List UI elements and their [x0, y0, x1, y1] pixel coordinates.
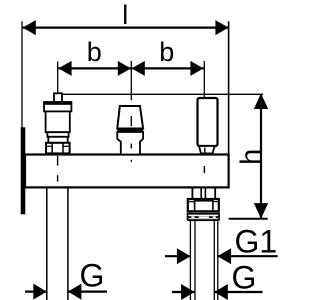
dimension G right left tail [172, 291, 195, 293]
union stem inner line right [204, 189, 206, 200]
extension line valve1 centerline up [57, 62, 59, 94]
union collar knurl band [188, 216, 219, 218]
valve V1 centerline dash in manifold [57, 156, 59, 166]
dimension l line [23, 27, 229, 29]
svg-text:h: h [235, 149, 267, 165]
union stem right line [214, 189, 216, 200]
svg-text:b: b [159, 37, 174, 67]
dimension l right arrow [215, 20, 228, 35]
dimension h bottom arrow [254, 203, 268, 219]
valve V1 nut chamfer left [46, 145, 52, 147]
dimension l left arrow [23, 20, 36, 35]
valve V1 cap band thick top [44, 102, 71, 105]
dimension G left right tail [68, 291, 107, 293]
valve V1 nut [46, 143, 70, 154]
valve V2 centerline dash upper [130, 116, 132, 126]
union stem inner line left [200, 189, 202, 200]
extension line valve2 centerline up [130, 61, 132, 100]
union collar top ring [188, 213, 219, 215]
dimension G1 left arrow [177, 248, 191, 264]
dimension b line [58, 67, 203, 69]
dimension G left left tail [25, 291, 47, 293]
svg-text:G: G [80, 258, 105, 294]
svg-text:G1: G1 [235, 223, 278, 259]
left pipe line left [46, 189, 48, 300]
thermometer centerline dash [204, 148, 206, 153]
valve V1 nut facet right [62, 143, 64, 154]
thermometer nut [199, 146, 215, 153]
dimension G1 left tail [165, 255, 190, 257]
right pipe inner line right [213, 221, 215, 300]
union nut chamfer left [188, 201, 195, 203]
dimension G1 right arrow [218, 248, 232, 264]
right pipe inner line left [194, 221, 196, 300]
union collar knurl notch 3 [213, 216, 216, 218]
dimension l extension line left [21, 21, 23, 127]
valve V2 band [117, 129, 143, 133]
dimension h line [260, 94, 262, 219]
union collar left edge [187, 213, 189, 221]
valve V2 frustum [117, 106, 143, 129]
union nut [188, 199, 219, 211]
valve V1 neck [48, 137, 67, 143]
dimension G left left arrow [33, 284, 47, 300]
svg-text:b: b [87, 37, 102, 67]
dimension G left right arrow [68, 284, 82, 300]
svg-text:l: l [122, 0, 128, 30]
valve V1 nut chamfer right [63, 145, 70, 147]
dimension G right right tail [214, 291, 262, 293]
valve V2 centerline dash lower [130, 144, 132, 149]
pipe centerline dash in manifold [203, 166, 205, 173]
union nut facet left [194, 199, 196, 211]
dimension b middle arrow right-pointing [118, 61, 131, 76]
valve V1 body [46, 111, 70, 132]
valve V1 centerline dash lower [57, 175, 59, 181]
valve V1 step [47, 132, 68, 137]
dimension G right right arrow [214, 284, 228, 300]
valve V1 cap band [44, 102, 71, 111]
flange [21, 127, 26, 214]
dimension b middle arrow left-pointing [132, 61, 145, 76]
top reference line [62, 93, 263, 95]
left pipe line right [67, 189, 69, 300]
valve V1 nut facet left [51, 143, 53, 154]
valve V2 centerline dot in manifold [130, 160, 132, 162]
manifold body [25, 155, 229, 188]
dimension b right arrow [190, 61, 203, 76]
union collar knurl notch 2 [199, 216, 209, 218]
thermometer well body [198, 98, 218, 146]
union nut chamfer right [213, 201, 219, 203]
union collar bottom ring [188, 219, 219, 221]
valve V1 knob [54, 93, 62, 102]
dimension G right left arrow [181, 284, 195, 300]
union nut top chamfer band [195, 199, 213, 202]
union collar right edge [218, 213, 220, 221]
dimension b left arrow [58, 61, 71, 76]
svg-text:G: G [232, 260, 257, 296]
union nut facet right [212, 199, 214, 211]
dimension h top arrow [254, 94, 268, 110]
extension line pipe centerline up [203, 61, 205, 98]
right pipe outer line left [189, 221, 191, 300]
dimension h bottom baseline [229, 218, 268, 220]
right pipe outer line right [217, 221, 219, 300]
dimension G1 right tail [218, 255, 278, 257]
union collar knurl notch 1 [191, 216, 194, 218]
union stem left line [191, 189, 193, 200]
valve V2 body and stem [117, 132, 143, 155]
dimension l extension line right [228, 21, 230, 154]
